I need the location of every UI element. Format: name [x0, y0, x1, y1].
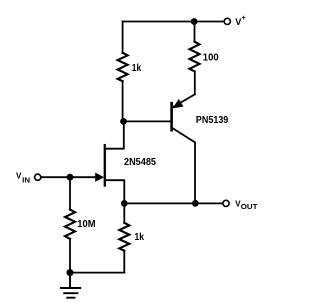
svg-text:OUT: OUT [241, 202, 258, 211]
wire 100 bottom lead to emitter [194, 71, 196, 94]
svg-text:V: V [16, 172, 22, 181]
svg-text:+: + [242, 13, 247, 22]
terminal VOUT [223, 200, 229, 206]
terminal V+ [224, 18, 230, 24]
node top rail junction [191, 18, 198, 25]
wire gate lead from VIN [41, 176, 97, 178]
terminal VIN [35, 174, 41, 180]
transistor Q1 collector diagonal [173, 128, 195, 142]
resistor 1k (upper) [118, 53, 128, 81]
wire 100 top lead [194, 22, 196, 42]
transistor Q1 emitter arrow (PNP, points to base) [172, 99, 183, 108]
node ground junction [67, 269, 74, 276]
wire top rail V+ [123, 21, 224, 23]
wire 10M top lead [69, 177, 71, 209]
transistor Q1 base bar [170, 103, 173, 130]
label 2N5485 [124, 157, 156, 168]
svg-text:1k: 1k [132, 63, 142, 74]
node output right junction [192, 200, 199, 207]
transistor Q2 2N5485 channel bar [104, 145, 106, 186]
svg-text:1k: 1k [135, 232, 145, 243]
node input junction [67, 174, 74, 181]
transistor Q1 PN5139 emitter diagonal [173, 94, 195, 107]
wire output rail [124, 202, 222, 204]
label 10M [77, 219, 95, 230]
resistor 10M [65, 210, 75, 239]
resistor 100 [190, 42, 200, 72]
svg-text:100: 100 [203, 53, 219, 64]
wire base lead [124, 120, 171, 122]
wire 10M bottom lead [69, 239, 71, 273]
label PN5139 [196, 115, 229, 126]
label 100 [203, 53, 219, 64]
wire 1k top lead [122, 22, 124, 53]
svg-text:PN5139: PN5139 [196, 115, 229, 126]
label VIN [16, 172, 30, 185]
resistor 1k (lower) [119, 223, 129, 251]
wire collector to output node [194, 142, 196, 203]
node output left junction [121, 200, 128, 207]
label 1k (upper) [132, 63, 142, 74]
wire bottom rail to ground [70, 272, 124, 274]
wire JFET source lead [106, 180, 125, 203]
ground [61, 273, 80, 298]
node drain/base/1k junction [120, 118, 127, 125]
wire 1k lower bottom lead [123, 251, 125, 273]
svg-text:IN: IN [22, 176, 30, 185]
transistor Q2 gate arrow [95, 173, 104, 182]
wire 1k bottom lead to node [122, 81, 124, 121]
svg-text:10M: 10M [77, 219, 95, 230]
label 1k (lower) [135, 232, 145, 243]
wire JFET drain lead [106, 122, 124, 149]
label V+ [235, 13, 246, 27]
svg-text:2N5485: 2N5485 [124, 157, 156, 168]
label VOUT [235, 199, 258, 211]
wire 1k lower top lead [123, 203, 125, 222]
